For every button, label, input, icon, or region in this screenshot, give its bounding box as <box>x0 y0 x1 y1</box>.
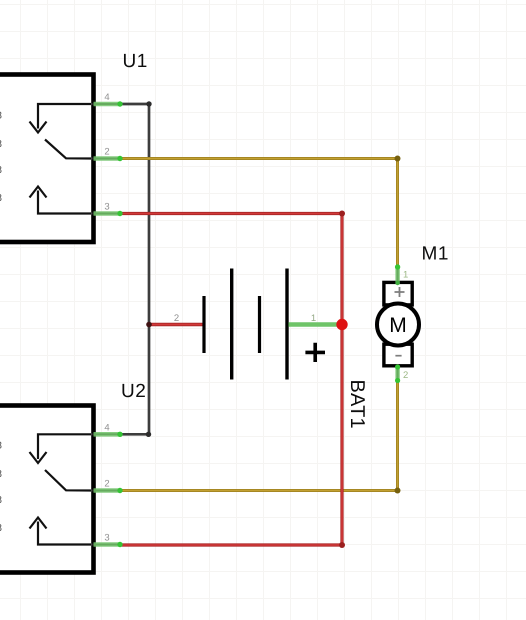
switch U2 <box>0 381 146 573</box>
battery BAT1 <box>174 269 368 429</box>
U2 left edge pin number fragments <box>0 441 2 535</box>
U2 pin 2 <box>92 479 123 494</box>
wire M1.2 to U2.2: vertical segment <box>396 382 399 491</box>
U1 body <box>0 75 94 243</box>
U2 switch symbol: up arrow shaft <box>38 522 91 545</box>
M1 bottom terminal box <box>384 344 412 366</box>
U2 pin 3 <box>92 533 123 548</box>
U1 pin 2 <box>92 147 123 162</box>
U1 switch symbol: up arrow shaft <box>38 191 91 214</box>
bend point red top <box>339 211 345 217</box>
wire U1.4 to U2.4 vertical segment <box>148 104 151 434</box>
svg-text:2: 2 <box>174 313 179 324</box>
svg-text:U2: U2 <box>121 381 146 402</box>
BAT1 plus sign <box>305 343 325 362</box>
wire battery pin2 to gray net <box>149 323 204 327</box>
wire U2.4 horizontal segment to U2 pin 4 <box>120 433 149 436</box>
svg-text:1: 1 <box>311 313 316 324</box>
U1 pin 4 <box>92 92 123 107</box>
U1 pin 3 <box>92 202 123 217</box>
wire U2.3 horizontal segment <box>120 543 342 546</box>
svg-text:4: 4 <box>104 422 109 433</box>
junction dot battery pin1 / red net <box>336 319 347 330</box>
M1 circle body <box>377 304 419 346</box>
U2 switch symbol: lever <box>45 470 91 491</box>
bend point olive bottom <box>395 488 401 494</box>
BAT1 plate long right <box>285 269 288 380</box>
U1 left edge pin number fragments <box>0 111 2 205</box>
U2 switch symbol: top throw line <box>38 434 91 459</box>
bend point at U1 pin4 corner <box>146 101 151 106</box>
U1 switch symbol: down arrowhead <box>30 122 47 133</box>
BAT1 plate short right <box>258 296 261 353</box>
M1 top terminal box <box>384 282 412 305</box>
U1 switch symbol: top throw line <box>38 104 91 129</box>
wire U1.2 to motor: horizontal segment <box>120 157 398 160</box>
wire U1.2 to motor: vertical segment down to M1 pin 1 <box>396 159 399 268</box>
wire U1.4 to U2.4 horizontal segment from U1 pin 4 <box>120 103 149 106</box>
M1 minus mark <box>395 355 401 357</box>
wire M1.2 to U2.2: horizontal segment <box>120 489 398 492</box>
M1 pin 1 <box>395 264 408 285</box>
switch U1 <box>0 51 148 242</box>
svg-text:U1: U1 <box>123 51 148 72</box>
BAT1 pin 1 <box>289 313 340 325</box>
bend point red bottom <box>339 542 345 548</box>
motor M1 <box>377 244 449 384</box>
U1 switch symbol: lever <box>45 140 91 159</box>
svg-text:3: 3 <box>104 533 109 544</box>
wire U1.3 to battery: horizontal segment <box>120 212 342 215</box>
svg-text:2: 2 <box>104 479 109 490</box>
svg-text:2: 2 <box>104 147 109 158</box>
U2 switch symbol: up arrowhead <box>30 518 47 529</box>
U2 body <box>0 406 94 573</box>
U2 pin 4 <box>92 422 123 437</box>
svg-text:BAT1: BAT1 <box>346 380 368 429</box>
M1 pin 2 <box>395 364 408 383</box>
BAT1 plate short left <box>202 296 205 353</box>
bend point olive top <box>395 156 401 162</box>
svg-text:1: 1 <box>403 270 408 281</box>
svg-text:4: 4 <box>104 92 109 103</box>
svg-text:3: 3 <box>104 202 109 213</box>
junction dot on gray wire at battery pin 2 <box>146 322 152 328</box>
svg-text:M: M <box>389 314 407 337</box>
wire red vertical segment upper <box>340 214 343 546</box>
svg-text:M1: M1 <box>422 244 449 265</box>
BAT1 plate long left <box>230 269 233 380</box>
M1 plus mark <box>395 287 405 297</box>
U2 switch symbol: down arrowhead <box>30 452 47 463</box>
bend point at U2 pin4 corner <box>146 432 151 437</box>
U1 switch symbol: up arrowhead <box>30 187 47 198</box>
svg-text:2: 2 <box>403 370 408 381</box>
